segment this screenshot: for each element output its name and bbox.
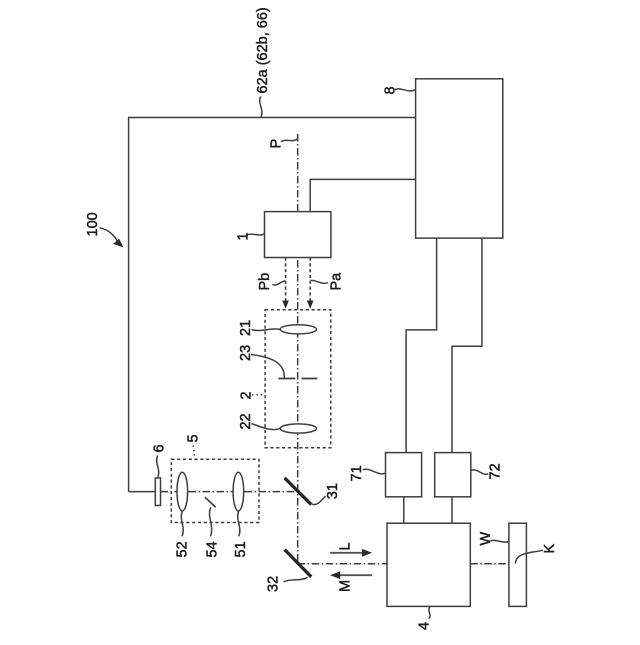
svg-text:62a (62b, 66): 62a (62b, 66): [255, 7, 271, 93]
label Pa: [329, 272, 345, 291]
dashed beam Pa: [309, 258, 311, 302]
svg-text:51: 51: [233, 541, 249, 557]
label 62a (62b, 66): [255, 7, 271, 93]
label Pb: [257, 273, 273, 291]
optical axis from mirror 32 to box 4 dash-dot: [298, 563, 387, 565]
leader for label 31: [312, 496, 326, 505]
optical axis P vertical dash-dot: [297, 134, 299, 564]
leader for label 21: [252, 329, 281, 331]
lens 22: [280, 424, 316, 433]
leader for label 22: [252, 424, 281, 430]
leader for label 52: [181, 511, 183, 536]
leader for label 8: [395, 89, 416, 91]
label 52: [175, 541, 191, 557]
lens 21: [280, 325, 316, 334]
label 1: [235, 232, 251, 240]
element 6 plate: [155, 478, 160, 506]
wire top line 62a from left border to box 8: [129, 117, 416, 119]
label 54: [204, 541, 220, 557]
box 8 controller: [416, 79, 503, 238]
svg-text:M: M: [338, 580, 354, 592]
arrow M returning light: [330, 571, 372, 579]
label L: [338, 542, 354, 550]
leader for label 6: [157, 456, 159, 478]
svg-text:52: 52: [175, 541, 191, 557]
leader for label Pa: [311, 280, 329, 283]
svg-text:32: 32: [266, 576, 282, 592]
svg-text:2: 2: [239, 391, 255, 399]
dotted leader for label 2: [252, 394, 265, 396]
svg-text:K: K: [542, 544, 558, 554]
label P: [269, 139, 285, 149]
label 4: [417, 622, 433, 630]
label 22: [238, 413, 254, 429]
dashed beam Pb: [285, 258, 287, 302]
leader arrow for label 100: [100, 228, 124, 248]
svg-text:72: 72: [488, 463, 504, 479]
svg-text:1: 1: [235, 232, 251, 240]
box 1 light source: [265, 212, 331, 258]
optical axis from element 6 to mirror 31 dash-dot: [161, 491, 298, 493]
wire box 8 to box 71: [406, 238, 437, 453]
leader for label 71: [363, 469, 386, 474]
plate K (stage with wafer W): [509, 523, 527, 606]
leader for label 23: [251, 355, 284, 378]
label W: [478, 532, 494, 546]
svg-text:23: 23: [238, 345, 254, 361]
tick 54 marker on axis: [205, 497, 216, 507]
label 100: [85, 212, 101, 236]
wire box 72 to box 4: [451, 497, 453, 523]
svg-text:21: 21: [238, 320, 254, 336]
leader for label 62a: [260, 97, 262, 118]
svg-text:5: 5: [185, 434, 201, 442]
leader for label 1: [247, 234, 264, 236]
box 71 driver: [386, 453, 422, 497]
wire left border vertical: [128, 117, 130, 492]
label 72: [488, 463, 504, 479]
svg-text:6: 6: [152, 444, 168, 452]
label 23: [238, 345, 254, 361]
box 72 driver: [435, 453, 471, 497]
mirror 31: [285, 478, 312, 505]
leader for label K: [516, 550, 544, 563]
label 5: [185, 434, 201, 442]
leader for label 72: [471, 470, 488, 474]
lens 52: [177, 472, 188, 511]
svg-text:P: P: [269, 139, 285, 149]
dotted leader for label 5: [193, 446, 195, 459]
label 21: [238, 320, 254, 336]
svg-text:L: L: [338, 542, 354, 550]
dashed box 5 lens unit: [171, 459, 259, 522]
lens 51: [233, 472, 244, 511]
arrow L incoming light: [330, 549, 372, 557]
svg-text:100: 100: [85, 212, 101, 236]
box 4 observation unit: [387, 523, 470, 606]
svg-text:31: 31: [325, 483, 341, 499]
wire border to element 6: [129, 491, 156, 493]
leader for label 54: [209, 508, 211, 537]
leader for label W: [490, 540, 508, 542]
svg-text:Pa: Pa: [329, 272, 345, 291]
mirror 32: [285, 550, 312, 577]
label 51: [233, 541, 249, 557]
leader for label P: [281, 139, 298, 142]
label M: [338, 580, 354, 592]
dashed box 2 lens unit: [265, 310, 331, 448]
svg-text:71: 71: [349, 465, 365, 481]
stop 23: [278, 378, 317, 380]
label 31: [325, 483, 341, 499]
leader for label 32: [284, 577, 308, 582]
svg-text:Pb: Pb: [257, 273, 273, 291]
wire box 71 to box 4: [403, 497, 405, 523]
optical axis from box 4 to plate K dash-dot: [470, 563, 515, 565]
svg-text:8: 8: [383, 86, 399, 94]
wire box 8 to box 72: [452, 238, 482, 453]
leader for label 4: [429, 607, 430, 619]
svg-text:W: W: [478, 532, 494, 546]
arrowhead Pa: [307, 301, 314, 309]
label 8: [383, 86, 399, 94]
wire from box 8 to box 1 riser: [310, 179, 415, 211]
label 2: [239, 391, 255, 399]
label K: [542, 544, 558, 554]
leader for label Pb: [273, 281, 286, 285]
label 71: [349, 465, 365, 481]
label 32: [266, 576, 282, 592]
arrowhead Pb: [282, 301, 289, 309]
svg-text:54: 54: [204, 541, 220, 557]
svg-text:4: 4: [417, 622, 433, 630]
svg-text:22: 22: [238, 413, 254, 429]
label 6: [152, 444, 168, 452]
leader for label 51: [238, 511, 240, 536]
